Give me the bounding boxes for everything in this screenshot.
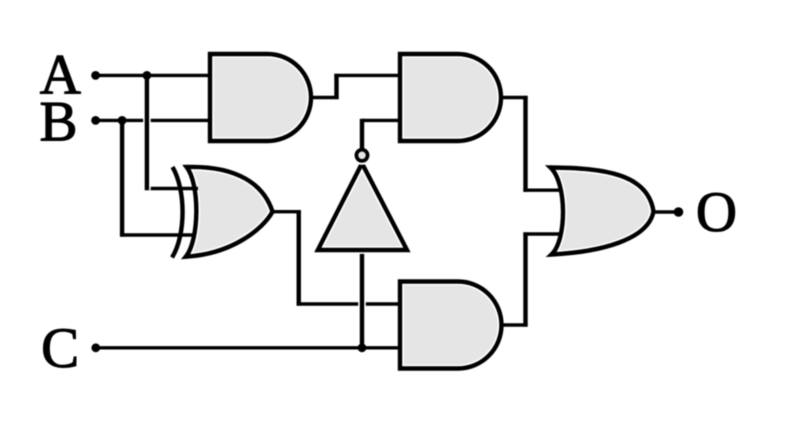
wire AND3 to OR riser (vertical)	[523, 232, 527, 326]
junction dot node B	[118, 116, 127, 125]
wire NOT output riser (vertical)	[360, 119, 364, 149]
wire node A drop (vertical, crosses wire B)	[143, 74, 151, 190]
wire AND1 output horizontal	[311, 96, 339, 99]
wire AND2 to OR riser (vertical)	[523, 96, 527, 192]
xor-gate U3 input arc	[172, 167, 183, 258]
and-gate U4 (bottom)	[400, 282, 501, 369]
junction dot node C	[358, 343, 367, 352]
wire NOT input drop (vertical, crosses XOR-AND3 wire, white casing)	[358, 250, 366, 348]
wire AND3 output horizontal	[502, 323, 528, 326]
terminal dot input A	[91, 71, 100, 80]
terminal dot input C	[91, 343, 100, 352]
not-gate U6 inversion bubble	[356, 150, 367, 161]
wire node B to xor input 2 (horizontal)	[120, 233, 196, 236]
xor-gate U3 body	[186, 167, 273, 257]
terminal dot output O	[674, 207, 684, 217]
wire node A to xor input 1 (horizontal)	[145, 187, 198, 190]
wire to OR input 2	[523, 232, 559, 235]
wire NOT output to AND2 input 2	[362, 119, 400, 122]
terminal dot input B	[91, 116, 100, 125]
wire XOR output drop (vertical)	[297, 210, 301, 306]
svg-text:O: O	[696, 181, 737, 244]
wire XOR output horizontal	[273, 210, 301, 213]
wire AND1 to AND2 riser	[334, 74, 338, 99]
wire AND2 output horizontal	[501, 96, 528, 99]
wire riser to AND2 input 1	[334, 74, 400, 77]
and-gate U1 (inputs A,B)	[210, 54, 311, 141]
wire C input line	[96, 346, 400, 349]
wire A input stub	[96, 74, 210, 77]
wire to OR input 1	[523, 188, 561, 191]
wire B input stub	[96, 119, 210, 122]
junction dot node A	[143, 71, 152, 80]
or-gate U5 (output stage)	[551, 168, 654, 255]
wire node B drop (vertical)	[120, 119, 124, 237]
svg-text:C: C	[41, 317, 79, 380]
and-gate U2 (top right)	[400, 54, 501, 141]
wire OR output	[652, 210, 679, 213]
svg-text:B: B	[39, 91, 77, 154]
not-gate U6 triangle (pointing up)	[318, 163, 407, 250]
wire to AND3 input 1	[297, 302, 400, 305]
